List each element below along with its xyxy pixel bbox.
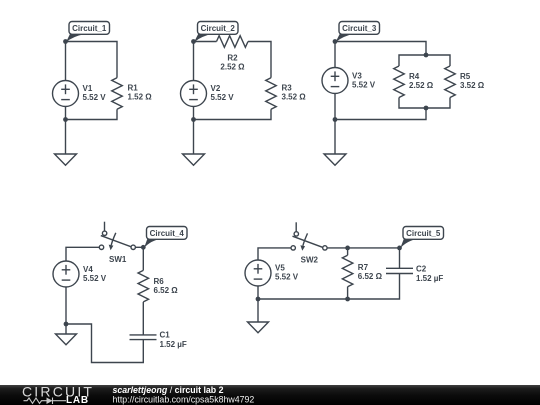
svg-text:1.52 µF: 1.52 µF (160, 340, 187, 349)
voltage source V3 (322, 68, 348, 94)
resistor R7 (342, 255, 353, 287)
svg-text:C2: C2 (416, 265, 427, 274)
resistor R5 (445, 66, 456, 98)
label callout Circuit_3 (336, 22, 380, 43)
resistor R4 (394, 66, 405, 98)
svg-text:Circuit_3: Circuit_3 (342, 24, 377, 33)
node bottom C5 (256, 297, 261, 302)
C1 value label (160, 331, 187, 350)
wire V3 bottom (334, 94, 336, 155)
wire R3 bottom (194, 109, 272, 119)
node C2 top (397, 246, 402, 251)
R5 value label (460, 72, 485, 90)
V4 value label (83, 265, 107, 283)
label callout Circuit_5 (400, 227, 443, 249)
wire top node to R2 (194, 41, 217, 43)
label callout Circuit_2 (194, 22, 238, 43)
resistor R2 (217, 36, 249, 48)
capacitor C2 (386, 268, 413, 273)
node top C3 (333, 39, 338, 44)
svg-text:R4: R4 (409, 72, 420, 81)
wire C2 bottom (258, 274, 400, 300)
node parallel top (424, 53, 429, 58)
svg-text:2.52 Ω: 2.52 Ω (220, 63, 245, 72)
R7 value label (358, 263, 383, 281)
capacitor C1 (130, 335, 157, 340)
node top C1 (63, 39, 68, 44)
logo resistor-diode squiggle (24, 398, 67, 405)
wire C2 branch top (399, 248, 401, 268)
svg-text:R2: R2 (227, 54, 238, 63)
R2 value label (220, 54, 245, 72)
wire junction down to bottom rail (335, 108, 426, 120)
wire node to C2 node (348, 247, 400, 249)
wire top node to parallel junction (335, 42, 426, 56)
svg-text:3.52 Ω: 3.52 Ω (460, 81, 485, 90)
svg-text:http://circuitlab.com/cpsa5k8h: http://circuitlab.com/cpsa5k8hw4792 (113, 394, 255, 404)
svg-text:Circuit_1: Circuit_1 (72, 24, 107, 33)
svg-text:5.52 V: 5.52 V (211, 93, 235, 102)
wire top to R1 (66, 42, 118, 78)
wire switch to node (135, 246, 143, 248)
svg-text:5.52 V: 5.52 V (275, 273, 299, 282)
wire left branch C3 top (334, 42, 336, 68)
wire left branch C1 top (65, 42, 67, 81)
node bottom C4 (64, 322, 69, 327)
svg-text:scarlettjeong / circuit lab 2: scarlettjeong / circuit lab 2 (113, 385, 224, 395)
svg-text:R1: R1 (128, 84, 139, 93)
node right of SW1 (141, 245, 146, 250)
svg-text:SW2: SW2 (301, 256, 319, 265)
node parallel bottom (424, 106, 429, 111)
wire top bracket (399, 55, 450, 66)
wire switch to R7 node (327, 247, 348, 249)
svg-text:6.52 Ω: 6.52 Ω (358, 272, 383, 281)
voltage source V5 (245, 260, 271, 286)
wire C1 bottom loop back to V4 (66, 324, 143, 363)
node R7 top (345, 246, 350, 251)
svg-text:Circuit_5: Circuit_5 (406, 229, 441, 238)
wire R1 bottom (66, 109, 118, 119)
svg-text:R6: R6 (154, 277, 165, 286)
V3 value label (352, 72, 376, 90)
R6 value label (154, 277, 179, 295)
wire V5 top to switch (258, 248, 291, 260)
wire bottom bracket (399, 98, 450, 109)
svg-text:3.52 Ω: 3.52 Ω (282, 93, 307, 102)
svg-text:5.52 V: 5.52 V (352, 81, 376, 90)
svg-text:R5: R5 (460, 72, 471, 81)
svg-text:2.52 Ω: 2.52 Ω (409, 81, 434, 90)
node bottom C3 (333, 117, 338, 122)
svg-text:5.52 V: 5.52 V (83, 93, 107, 102)
resistor R1 (112, 78, 123, 110)
ground GND3 (324, 154, 346, 165)
voltage source V4 (53, 261, 79, 287)
wire R2 right to R3 top (248, 42, 271, 78)
node bottom C2 (191, 117, 196, 122)
V5 value label (275, 264, 299, 282)
svg-text:R3: R3 (282, 84, 293, 93)
ground GND2 (183, 154, 205, 165)
svg-text:V2: V2 (211, 84, 221, 93)
wire V4 top to switch (66, 247, 100, 261)
label callout Circuit_1 (66, 22, 110, 43)
switch SW1 (99, 222, 135, 251)
wire R7 bottom (347, 287, 349, 299)
svg-text:1.52 µF: 1.52 µF (416, 274, 443, 283)
C2 value label (416, 265, 443, 284)
V2 value label (211, 84, 235, 102)
svg-text:5.52 V: 5.52 V (83, 274, 107, 283)
svg-text:1.52 Ω: 1.52 Ω (128, 93, 153, 102)
wire V5 bottom (257, 287, 259, 323)
wire node to R6 (142, 247, 144, 270)
R4 value label (409, 72, 434, 90)
resistor R6 (138, 270, 149, 302)
wire V2 bottom (193, 107, 195, 154)
wire R7 branch (347, 248, 349, 255)
svg-text:R7: R7 (358, 263, 369, 272)
svg-text:Circuit_4: Circuit_4 (150, 229, 185, 238)
wire V4 bottom (65, 287, 67, 334)
svg-text:V3: V3 (352, 72, 362, 81)
ground GND5 (248, 322, 269, 333)
switch SW2 (291, 222, 327, 251)
ground GND4 (56, 334, 77, 345)
voltage source V1 (53, 81, 79, 107)
svg-text:V4: V4 (83, 265, 93, 274)
svg-text:C1: C1 (160, 331, 171, 340)
wire R6 to C1 (142, 302, 144, 335)
resistor R3 (266, 78, 277, 110)
svg-text:6.52 Ω: 6.52 Ω (154, 286, 179, 295)
wire left branch C2 top (193, 42, 195, 81)
node R7 bottom (345, 297, 350, 302)
ground GND1 (55, 154, 77, 165)
V1 value label (83, 84, 107, 102)
wire V1 bottom (65, 107, 67, 154)
R1 value label (128, 84, 153, 102)
svg-text:LAB: LAB (66, 395, 89, 405)
R3 value label (282, 84, 307, 102)
svg-text:SW1: SW1 (109, 255, 127, 264)
svg-text:V5: V5 (275, 264, 285, 273)
svg-text:V1: V1 (83, 84, 93, 93)
node top C2 (191, 39, 196, 44)
label callout Circuit_4 (144, 227, 187, 249)
svg-text:Circuit_2: Circuit_2 (201, 24, 236, 33)
voltage source V2 (181, 81, 207, 107)
node bottom C1 (63, 117, 68, 122)
